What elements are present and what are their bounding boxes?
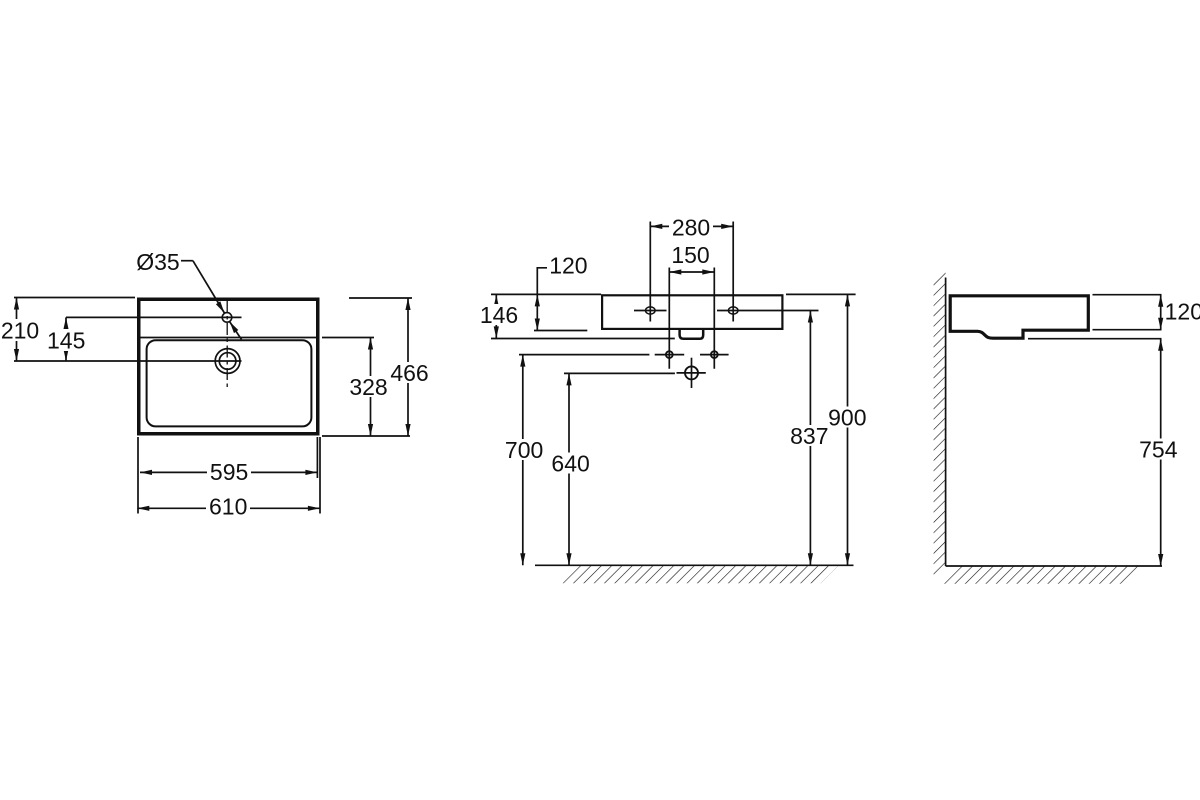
svg-text:466: 466: [390, 360, 428, 386]
svg-text:595: 595: [210, 459, 248, 485]
svg-text:146: 146: [480, 302, 518, 328]
svg-text:210: 210: [1, 317, 39, 343]
svg-text:700: 700: [505, 437, 543, 463]
svg-text:Ø35: Ø35: [136, 249, 179, 275]
svg-text:280: 280: [672, 214, 710, 240]
svg-text:328: 328: [349, 374, 387, 400]
svg-text:610: 610: [209, 494, 247, 520]
svg-text:754: 754: [1139, 436, 1178, 462]
svg-text:900: 900: [828, 404, 866, 430]
svg-text:120: 120: [549, 253, 587, 279]
svg-text:120: 120: [1165, 299, 1200, 325]
svg-text:145: 145: [47, 327, 85, 353]
svg-text:837: 837: [790, 423, 828, 449]
svg-text:640: 640: [551, 451, 589, 477]
svg-text:150: 150: [671, 242, 709, 268]
